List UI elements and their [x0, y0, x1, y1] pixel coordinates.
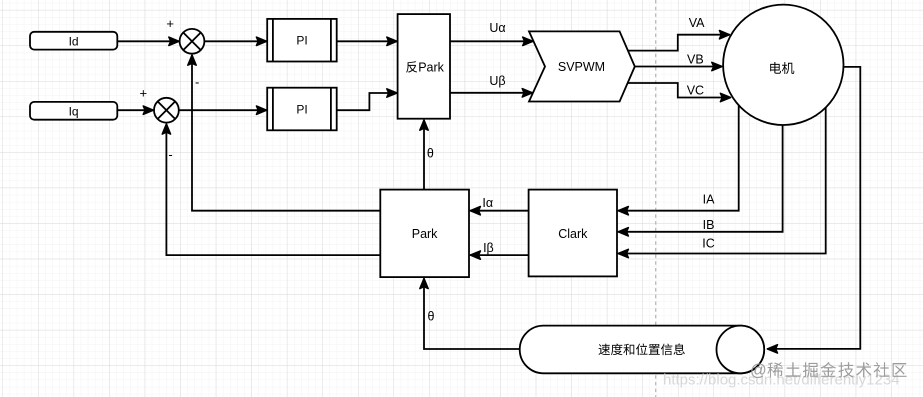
wire SVPWM VA to motor: [628, 35, 730, 51]
wire motor IA to Clark: [618, 104, 739, 211]
wire Clark Ialpha to Park: [470, 210, 528, 212]
wire Park Iq feedback to S2: [166, 124, 380, 255]
wire theta Park to inverse-Park: [423, 120, 425, 190]
wire Id to summing junction S1: [117, 40, 179, 42]
svg-text:Uα: Uα: [489, 21, 505, 35]
svg-text:VC: VC: [687, 84, 704, 98]
wire inverse-Park Ualpha to SVPWM: [450, 40, 533, 42]
svg-text:Id: Id: [69, 34, 79, 48]
svg-text:IA: IA: [703, 193, 715, 207]
svg-text:IB: IB: [703, 218, 715, 232]
svg-text:IC: IC: [702, 237, 715, 251]
svg-text:Iq: Iq: [69, 104, 79, 118]
svg-text:+: +: [166, 16, 174, 31]
speed and position sensor (direct access storage shape): [520, 326, 764, 374]
svg-text:PI: PI: [296, 34, 307, 48]
wire S1 to PI1: [204, 40, 266, 42]
svg-text:Iβ: Iβ: [483, 241, 494, 255]
svg-text:θ: θ: [427, 147, 434, 161]
wire SVPWM VC to motor: [628, 83, 731, 98]
svg-text:θ: θ: [428, 309, 435, 323]
wire motor IC to Clark: [618, 106, 826, 254]
summing junction S1: [180, 29, 205, 54]
wire motor to speed-position sensor: [767, 67, 860, 349]
svg-text:Park: Park: [412, 227, 438, 241]
block Iq input: [30, 102, 117, 120]
svg-text:SVPWM: SVPWM: [558, 60, 605, 74]
block SVPWM: [529, 31, 635, 101]
wire motor IB to Clark: [618, 124, 782, 232]
block PI2 (q-axis PI controller): [267, 88, 337, 131]
wire PI2 to inverse-Park: [337, 93, 397, 110]
wire PI1 to inverse-Park: [337, 40, 397, 42]
svg-text:PI: PI: [296, 102, 307, 116]
block PI1 (d-axis PI controller): [267, 19, 337, 62]
block Id input: [30, 32, 117, 50]
wire Iq to summing junction S2: [117, 109, 153, 111]
svg-text:-: -: [168, 147, 172, 162]
block Clark transform: [529, 190, 617, 277]
svg-text:Iα: Iα: [482, 196, 493, 210]
svg-text:Uβ: Uβ: [489, 74, 505, 88]
wire S2 to PI2: [179, 109, 267, 111]
svg-text:-: -: [195, 75, 199, 90]
wire theta sensor to Park: [424, 278, 520, 349]
block inverse Park transform: [398, 14, 450, 119]
svg-text:Park: Park: [418, 60, 444, 74]
svg-text:Clark: Clark: [558, 227, 588, 241]
svg-text:+: +: [140, 86, 148, 101]
motor (电机): [723, 5, 843, 125]
summing junction S2: [154, 98, 179, 123]
wire Clark Ibeta to Park: [470, 254, 528, 256]
wire SVPWM VB to motor: [635, 66, 722, 68]
wire Park Id feedback to S1: [192, 55, 380, 211]
block Park transform: [380, 190, 469, 278]
page separator dashed line: [655, 0, 657, 397]
svg-text:VB: VB: [687, 53, 704, 67]
svg-text:VA: VA: [689, 16, 705, 30]
wire inverse-Park Ubeta to SVPWM: [450, 92, 532, 94]
watermark juejin community: [750, 362, 907, 380]
svg-text:@: @: [750, 362, 767, 380]
